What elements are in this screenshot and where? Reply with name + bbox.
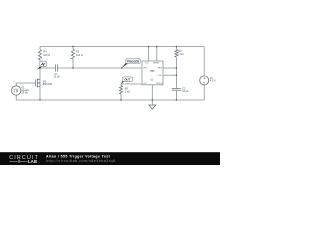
svg-text:THRS: THRS xyxy=(157,68,163,70)
label V1 xyxy=(21,87,29,95)
probe box TRIGGER xyxy=(126,59,140,64)
capacitor C2 plates xyxy=(172,89,181,91)
resistor R5 xyxy=(119,86,122,94)
wire R4 top lead xyxy=(39,47,41,50)
svg-text:1 kΩ: 1 kΩ xyxy=(178,53,183,56)
label C1 xyxy=(54,73,61,79)
ground xyxy=(149,105,156,109)
wire bottom rail xyxy=(16,99,204,101)
svg-text:OUT: OUT xyxy=(124,78,130,82)
svg-text:DISCH: DISCH xyxy=(156,83,163,85)
label R1 xyxy=(76,51,83,57)
wire IC VCC stub xyxy=(148,47,150,62)
wire GND stem xyxy=(151,85,153,105)
wire left drop below R4 xyxy=(39,60,41,100)
label C2 xyxy=(182,88,189,94)
svg-text:http://circuitlab.com/c8e4bba3: http://circuitlab.com/c8e4bba3rq6 xyxy=(46,159,115,163)
svg-text:555: 555 xyxy=(150,69,155,73)
wire V1 bottom lead xyxy=(15,95,17,100)
wire R1 leads xyxy=(72,47,74,69)
label R2 xyxy=(178,50,183,56)
transistor M1 channel bar xyxy=(36,79,38,88)
probe pointer (drain probe) xyxy=(37,66,41,69)
probe pointer OUT xyxy=(121,81,125,85)
transistor M1 body arrow xyxy=(38,82,39,83)
label V2 xyxy=(210,77,216,83)
probe waveform glyph xyxy=(41,63,45,66)
svg-text:Allan / 555 Trigger Voltage Te: Allan / 555 Trigger Voltage Test xyxy=(46,154,111,158)
label M1 xyxy=(43,81,53,87)
svg-text:100 Ω: 100 Ω xyxy=(76,54,83,57)
logo underline and transistor glyph xyxy=(9,160,27,162)
source V2 plus sign xyxy=(203,77,205,79)
svg-text:10 µF: 10 µF xyxy=(182,90,189,93)
resistor R4 xyxy=(38,50,41,60)
svg-text:10 µF: 10 µF xyxy=(54,76,61,79)
svg-text:4.5 V: 4.5 V xyxy=(210,80,216,83)
wire TRIG net left of C1 xyxy=(40,67,55,69)
probe box (drain probe) xyxy=(40,61,47,66)
svg-text:LAB: LAB xyxy=(28,159,37,164)
capacitor C1 plates xyxy=(56,64,58,71)
svg-text:TRIGGER: TRIGGER xyxy=(127,60,139,64)
label R4 xyxy=(43,51,50,57)
probe box OUT xyxy=(122,77,132,82)
wire top rail xyxy=(40,46,204,48)
wire IC THRS to node xyxy=(163,67,176,69)
transistor M1 gate bar xyxy=(35,80,37,87)
source V1 square-wave glyph xyxy=(14,89,19,92)
IC U1 pin labels xyxy=(143,62,163,85)
svg-text:1 kΩ: 1 kΩ xyxy=(125,91,130,94)
wire IC RESET stub xyxy=(156,47,158,62)
wire V2 bottom lead xyxy=(203,85,205,100)
op-amp U1 555 timer box xyxy=(142,61,163,85)
source V2 xyxy=(200,76,209,85)
wire IC CTRL to node xyxy=(163,74,176,76)
footer bar xyxy=(0,152,220,165)
wire C2 bottom lead xyxy=(175,90,177,100)
wire V2 top lead xyxy=(203,47,205,76)
source V1 xyxy=(12,86,21,95)
transistor M1 drain/body/source stubs xyxy=(37,80,40,87)
svg-text:TRIG: TRIG xyxy=(143,68,148,70)
wire OUT net xyxy=(121,83,142,85)
svg-text:BSS138: BSS138 xyxy=(43,83,53,86)
resistor R1 xyxy=(71,49,74,59)
probe pointer TRIGGER xyxy=(122,63,128,68)
node junction dots xyxy=(39,46,177,101)
svg-text:100 Ω: 100 Ω xyxy=(43,54,50,57)
source V2 minus sign xyxy=(203,82,205,84)
wire R5 leads xyxy=(120,84,122,100)
svg-text:CTRL: CTRL xyxy=(157,75,162,77)
label R5 xyxy=(125,88,130,94)
svg-text:VCC: VCC xyxy=(145,62,150,64)
wire TRIG net right of C1 xyxy=(58,67,142,69)
svg-text:RESET: RESET xyxy=(153,62,160,64)
svg-text:20 Hz: 20 Hz xyxy=(21,92,28,95)
wire V1 top lead and gate wire xyxy=(16,83,36,86)
resistor R2 xyxy=(175,49,178,57)
wire R2 leads xyxy=(175,47,177,89)
